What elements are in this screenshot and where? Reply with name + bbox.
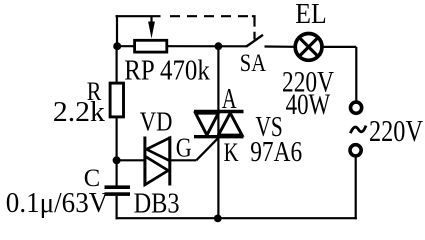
- wire: RP left lead: [117, 45, 134, 47]
- switch SA right contact wire to lamp: [265, 45, 295, 47]
- svg-text:EL: EL: [295, 0, 326, 30]
- wire: capacitor bottom lead: [115, 196, 117, 219]
- wire: top-left vertical from top wire down to RP left node: [116, 15, 118, 46]
- node: junction dot top of triac branch: [215, 42, 223, 50]
- svg-text:DB3: DB3: [134, 187, 180, 219]
- node: junction dot RP left: [113, 42, 121, 50]
- svg-text:G: G: [176, 132, 192, 162]
- diac VD right bar: [168, 137, 171, 186]
- capacitor C bottom plate: [105, 192, 131, 196]
- terminal: lower AC supply terminal circle: [350, 145, 361, 156]
- wire: right rail top vertical down to upper supply terminal: [355, 47, 357, 101]
- svg-text:VD: VD: [140, 107, 173, 137]
- svg-text:0.1μ/63V: 0.1μ/63V: [6, 187, 109, 219]
- resistor R body: [110, 83, 123, 117]
- svg-text:K: K: [224, 137, 239, 167]
- svg-text:40W: 40W: [286, 89, 331, 121]
- wire: gate horizontal from diac: [170, 159, 197, 161]
- wire: left rail R bottom lead to capacitor: [115, 117, 117, 186]
- wire: triac main vertical (A to K): [217, 46, 219, 218]
- terminal: upper AC supply terminal circle: [351, 102, 362, 113]
- diac VD left bar: [143, 137, 146, 186]
- triac VS bottom bar: [194, 135, 244, 138]
- switch SA blade: [246, 35, 263, 47]
- capacitor C top plate: [105, 185, 131, 189]
- svg-text:RP 470k: RP 470k: [124, 56, 210, 87]
- wire: dashed horizontal mechanical link to switch: [170, 15, 248, 17]
- svg-text:97A6: 97A6: [250, 137, 302, 168]
- wire: left rail R top lead: [115, 46, 117, 83]
- diac VD upper triangle (points left): [147, 138, 170, 161]
- wire: gate diagonal to triac: [196, 138, 218, 160]
- wire: lamp right lead to right rail: [323, 46, 356, 48]
- triac VS top bar: [194, 110, 244, 113]
- node: junction dot diac branch: [113, 156, 121, 164]
- svg-text:2.2k: 2.2k: [53, 97, 105, 128]
- svg-text:A: A: [222, 84, 237, 115]
- node: junction dot bottom of triac branch: [214, 215, 222, 223]
- wire: dashed vertical mechanical link down to switch blade: [252, 16, 255, 39]
- svg-text:220V: 220V: [369, 113, 423, 148]
- triac VS left triangle (points down): [196, 113, 219, 135]
- wire: top horizontal solid segment (wiper feedback): [116, 15, 161, 17]
- potentiometer RP body: [135, 40, 167, 52]
- diac VD lower triangle (points right): [145, 156, 168, 185]
- lamp EL circle with X: [295, 34, 322, 61]
- label ~ (AC tilde): [350, 126, 366, 134]
- wire: bottom horizontal rail: [116, 217, 357, 219]
- svg-text:SA: SA: [240, 48, 267, 77]
- wire: diac left lead: [117, 159, 145, 161]
- potentiometer RP wiper arrow: [148, 16, 155, 38]
- triac VS right triangle (points up): [218, 113, 242, 135]
- wire: RP right lead to switch pivot: [167, 45, 247, 47]
- wire: right rail bottom vertical to bottom wire: [355, 157, 357, 219]
